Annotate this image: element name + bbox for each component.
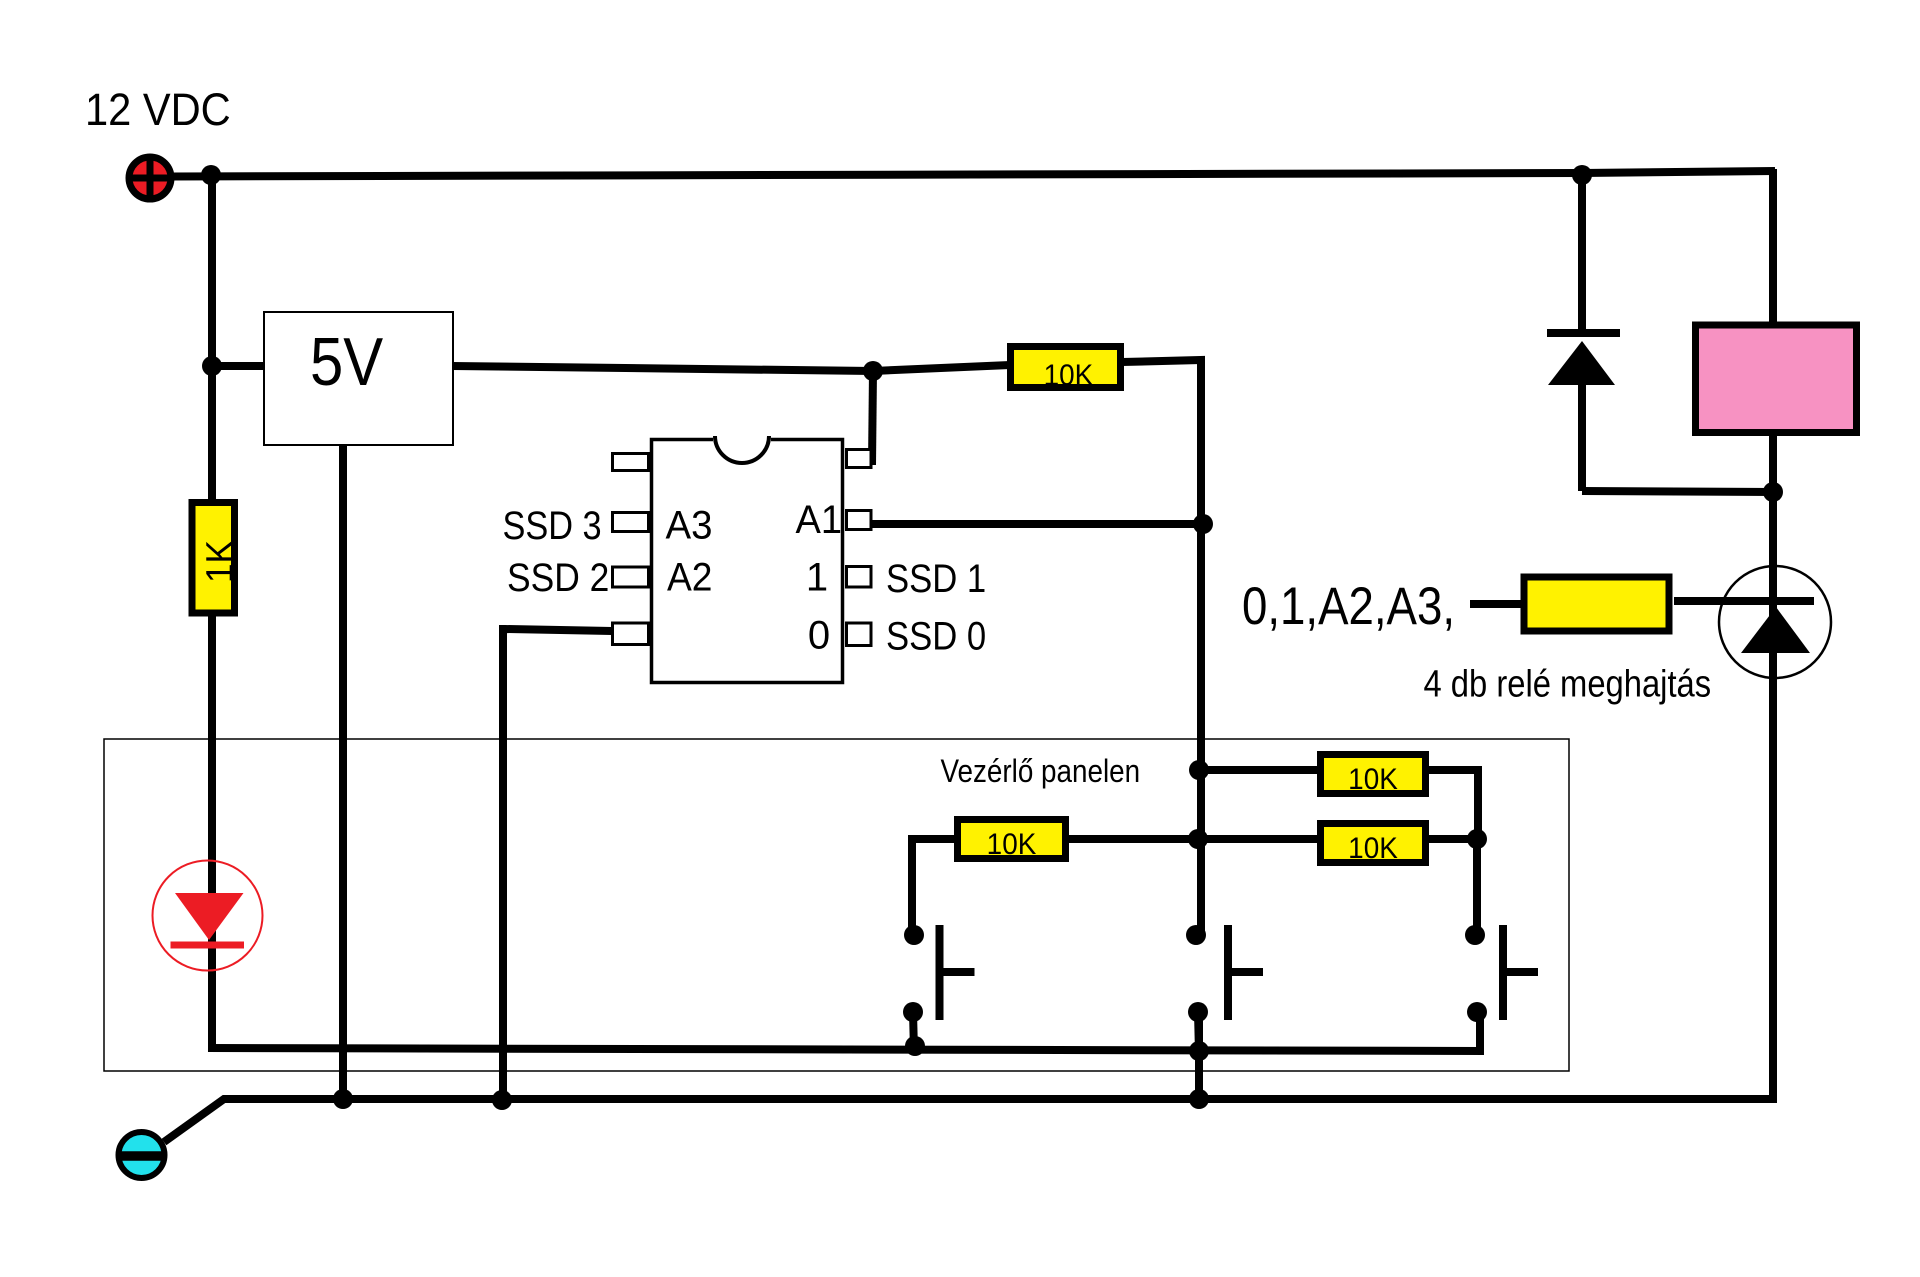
svg-text:SSD 0: SSD 0 [886,613,986,658]
svg-text:0: 0 [808,614,830,658]
svg-text:Vezérlő panelen: Vezérlő panelen [941,754,1141,789]
svg-text:10K: 10K [1044,359,1094,392]
svg-text:A3: A3 [666,504,713,548]
svg-text:A2: A2 [667,555,712,600]
svg-text:4 db relé meghajtás: 4 db relé meghajtás [1424,662,1712,705]
svg-text:5V: 5V [310,323,383,399]
svg-text:10K: 10K [1348,832,1398,865]
svg-text:1: 1 [806,556,828,600]
svg-text:SSD 1: SSD 1 [886,556,986,601]
svg-text:SSD 2: SSD 2 [507,556,609,600]
svg-text:A1: A1 [796,498,842,542]
svg-text:1K: 1K [198,540,241,583]
svg-text:12 VDC: 12 VDC [85,86,231,136]
svg-text:10K: 10K [987,828,1037,861]
svg-text:SSD 3: SSD 3 [503,503,602,548]
svg-text:10K: 10K [1348,763,1398,796]
svg-text:0,1,A2,A3,: 0,1,A2,A3, [1242,577,1455,636]
